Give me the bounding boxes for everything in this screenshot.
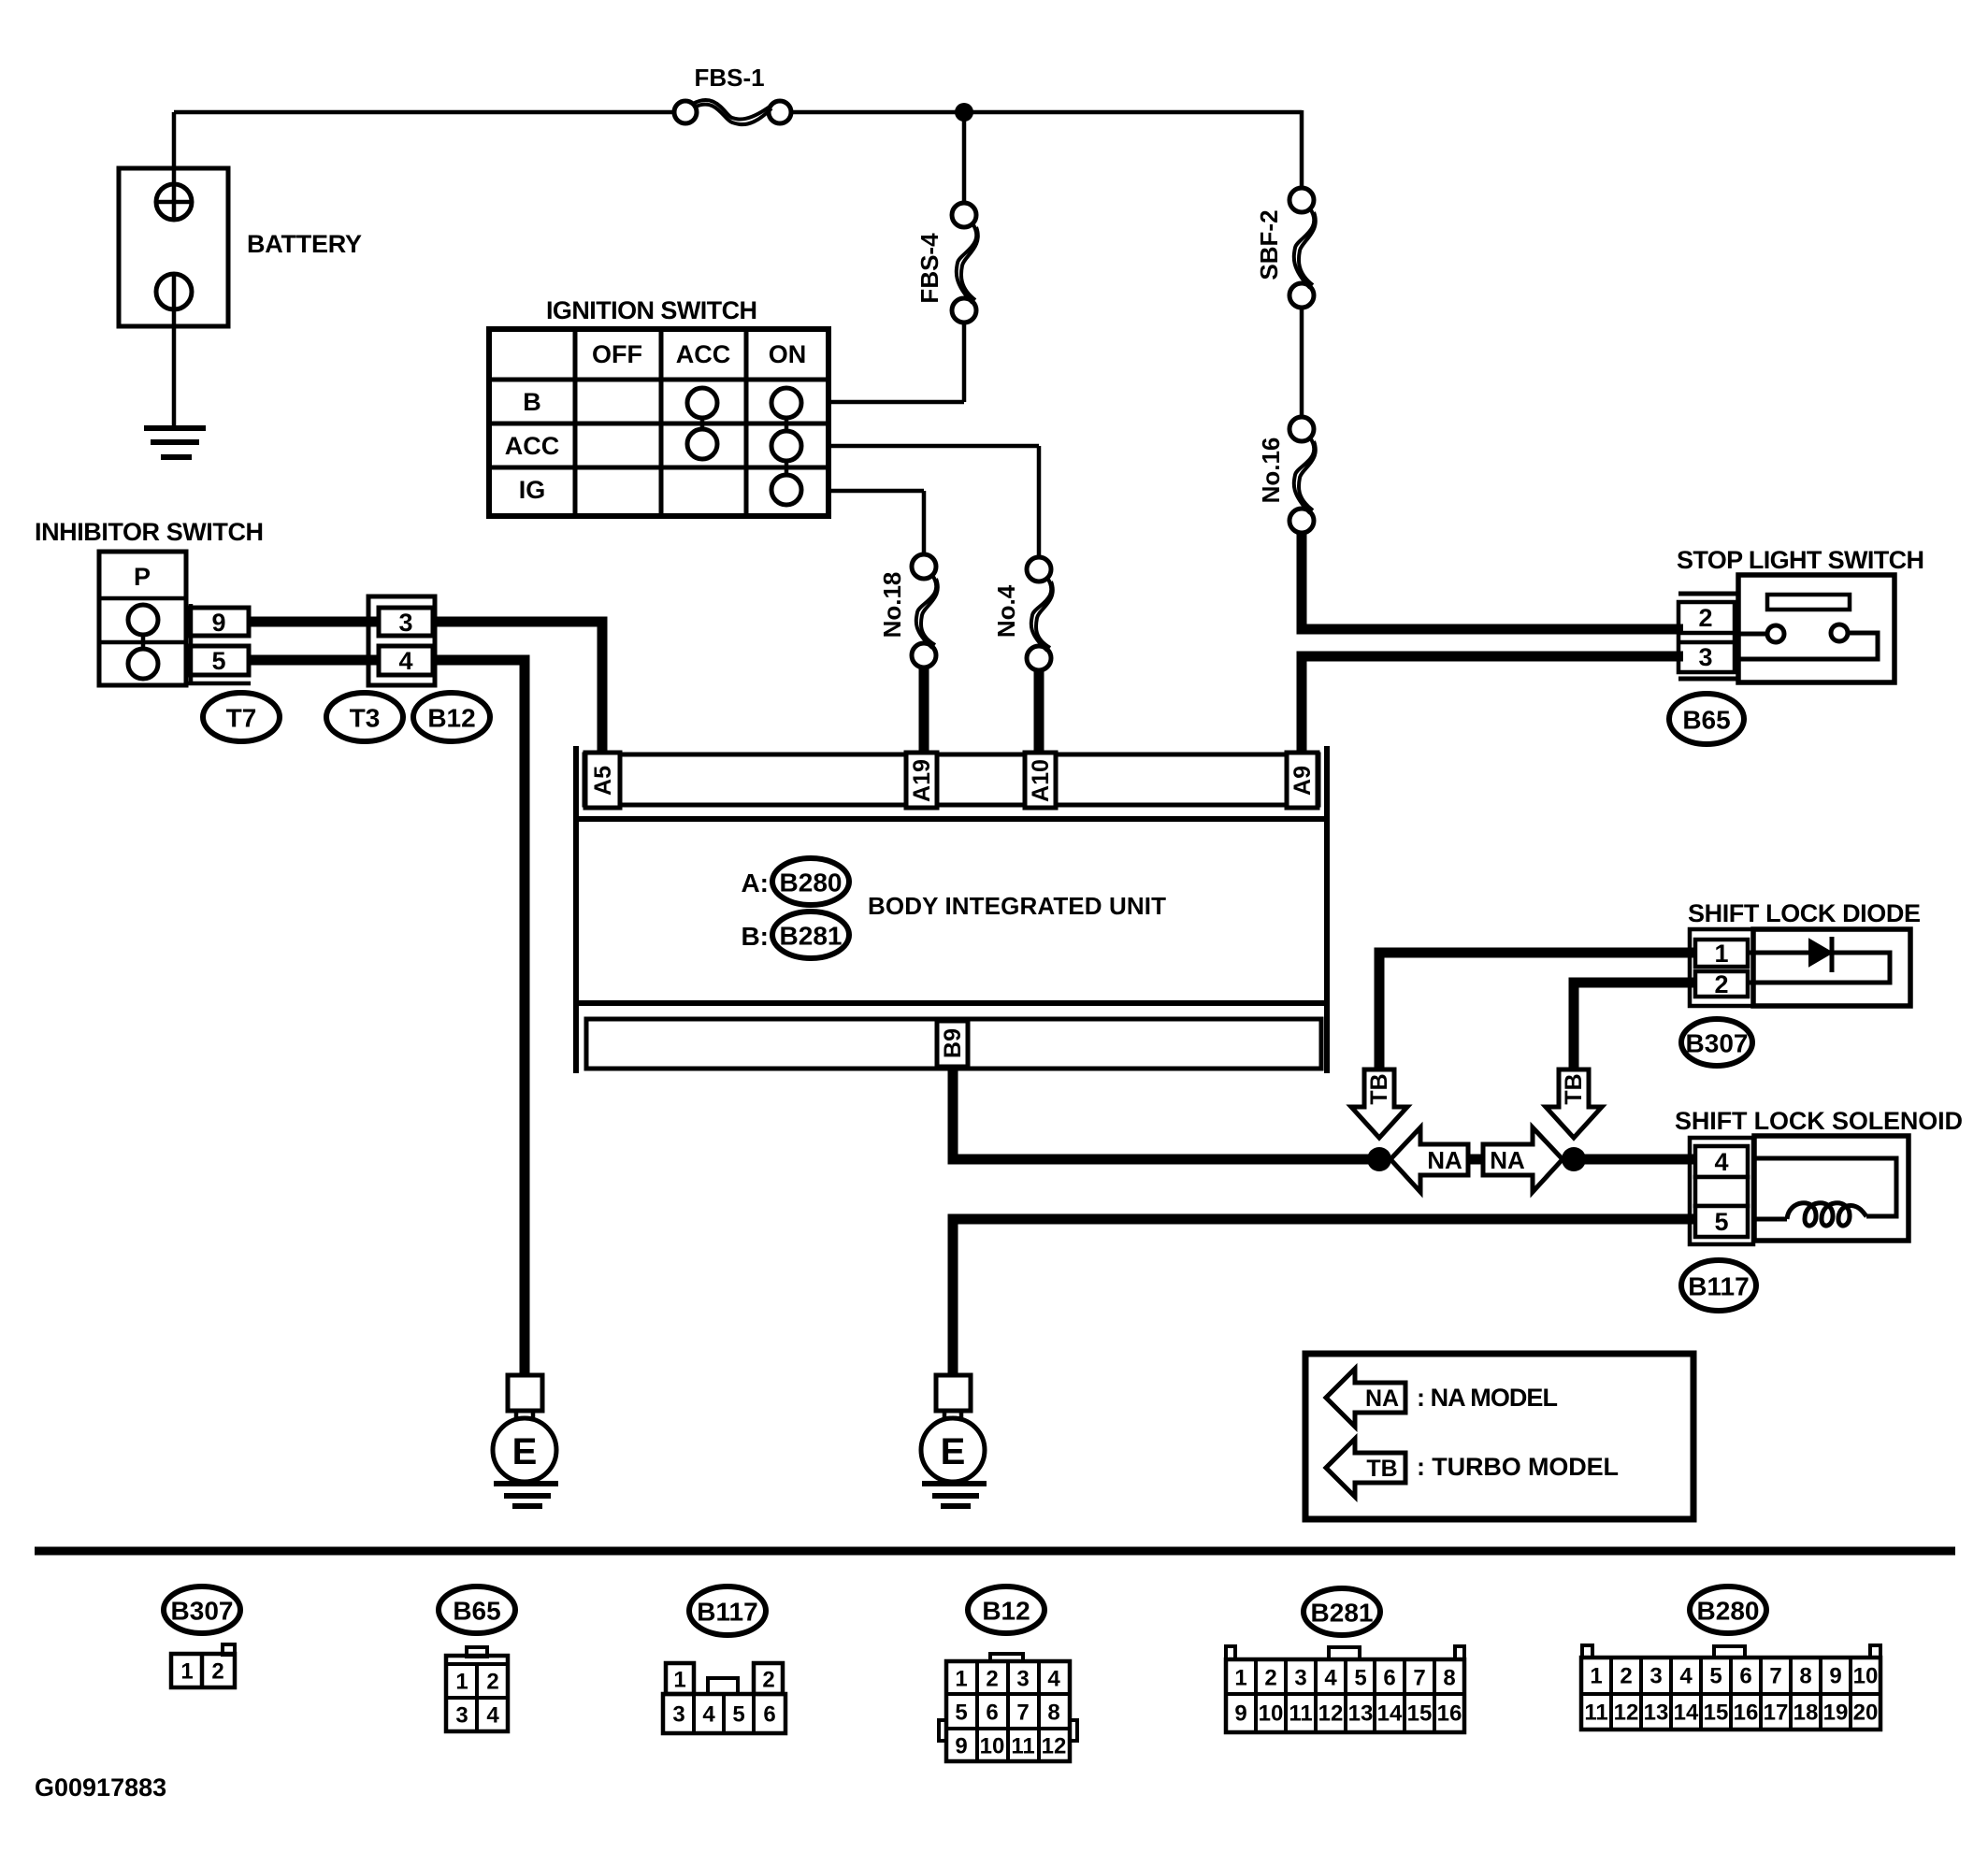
- svg-text:1: 1: [180, 1659, 193, 1685]
- svg-text:TB: TB: [1561, 1073, 1587, 1104]
- connector B281 (ellipse in box): [772, 911, 849, 958]
- svg-text:6: 6: [1383, 1666, 1395, 1691]
- svg-text:6: 6: [986, 1701, 998, 1726]
- pin 3: [379, 608, 433, 636]
- connector B12 (pinout): [968, 1586, 1044, 1633]
- svg-text:A9: A9: [1289, 766, 1316, 796]
- svg-text:B307: B307: [1686, 1029, 1749, 1058]
- connector B280 (ellipse in box): [772, 858, 849, 905]
- battery negative terminal: [156, 274, 192, 309]
- svg-text:2: 2: [986, 1667, 998, 1692]
- svg-text:T7: T7: [226, 704, 257, 733]
- svg-text:3: 3: [398, 609, 412, 637]
- svg-text:9: 9: [1234, 1701, 1246, 1727]
- wire No.16 to stop light switch pin 2: [1302, 533, 1683, 629]
- svg-text:16: 16: [1437, 1701, 1462, 1727]
- svg-text:16: 16: [1734, 1701, 1759, 1726]
- shift lock solenoid connector: [1690, 1138, 1753, 1244]
- svg-text:12: 12: [1318, 1701, 1344, 1727]
- svg-text:4: 4: [1679, 1664, 1693, 1689]
- svg-text:1: 1: [1234, 1666, 1246, 1691]
- wire FBS-1 to corner: [791, 110, 1302, 115]
- svg-text:5: 5: [732, 1702, 744, 1728]
- wire fuse No.18 to A19: [919, 667, 929, 754]
- stop light switch body: [1738, 575, 1894, 682]
- svg-text:FBS-1: FBS-1: [694, 64, 764, 92]
- wire SBF-2 to No.16: [1300, 308, 1304, 417]
- wire between NA arrows: [1464, 1155, 1487, 1165]
- node junction right: [1562, 1147, 1586, 1171]
- legend box: [1305, 1354, 1693, 1519]
- svg-text:INHIBITOR SWITCH: INHIBITOR SWITCH: [35, 518, 264, 546]
- svg-text:13: 13: [1644, 1701, 1669, 1726]
- connector B117 (pinout): [689, 1586, 766, 1635]
- svg-text:: TURBO MODEL: : TURBO MODEL: [1417, 1453, 1619, 1481]
- svg-text:SHIFT LOCK DIODE: SHIFT LOCK DIODE: [1688, 899, 1921, 927]
- svg-text:B9: B9: [940, 1028, 966, 1058]
- svg-text:3: 3: [1016, 1667, 1029, 1692]
- shift lock diode connector: [1690, 929, 1753, 1006]
- svg-text:A10: A10: [1028, 759, 1054, 802]
- inhibitor pin 9: [190, 608, 249, 636]
- svg-text:2: 2: [1714, 970, 1728, 998]
- diode D1: [1748, 951, 1809, 955]
- node junction left: [1367, 1147, 1391, 1171]
- svg-text:NA: NA: [1365, 1385, 1399, 1412]
- svg-text:4: 4: [1047, 1667, 1060, 1692]
- wire stop light switch pin 3 to A9: [1302, 656, 1683, 754]
- shift lock diode body: [1753, 929, 1910, 1006]
- svg-text:B280: B280: [1697, 1597, 1760, 1626]
- svg-text:11: 11: [1289, 1701, 1312, 1727]
- svg-text:TB: TB: [1366, 1456, 1397, 1482]
- svg-text:B: B: [523, 388, 541, 416]
- svg-text:2: 2: [211, 1659, 223, 1685]
- svg-text:10: 10: [1853, 1664, 1879, 1689]
- shift lock solenoid body: [1754, 1136, 1909, 1241]
- fuse No.4: [1027, 557, 1051, 581]
- svg-text:No.16: No.16: [1257, 438, 1285, 504]
- wire B9 down to junction row: [953, 1069, 1374, 1159]
- svg-text:8: 8: [1047, 1701, 1059, 1726]
- body integrated unit left bracket: [573, 746, 579, 1073]
- svg-text:G00917883: G00917883: [35, 1773, 166, 1801]
- svg-text:IG: IG: [519, 476, 546, 504]
- svg-text:3: 3: [672, 1702, 684, 1728]
- svg-text:18: 18: [1794, 1701, 1819, 1726]
- svg-text:5: 5: [955, 1701, 967, 1726]
- svg-text:FBS-4: FBS-4: [915, 233, 944, 304]
- svg-text:1: 1: [1590, 1664, 1602, 1689]
- svg-text:P: P: [134, 563, 151, 591]
- pin A9: [1287, 753, 1318, 808]
- wire ignition IG row to fuse No.18: [828, 489, 924, 494]
- fuse FBS-4: [952, 203, 976, 227]
- svg-text:B12: B12: [982, 1597, 1030, 1626]
- ground E right (solenoid circuit): [936, 1375, 971, 1411]
- body integrated unit main box: [576, 819, 1327, 1003]
- wire junction down to FBS-4: [962, 112, 967, 204]
- TB arrow right: [1546, 1069, 1602, 1138]
- connector B65: [1669, 694, 1744, 744]
- svg-text:8: 8: [1799, 1664, 1811, 1689]
- svg-text:1: 1: [1714, 940, 1728, 968]
- ground E left (inhibitor circuit): [508, 1375, 542, 1411]
- pin B9: [937, 1021, 968, 1067]
- svg-text:12: 12: [1042, 1734, 1067, 1759]
- svg-text:2: 2: [1620, 1664, 1632, 1689]
- svg-text:4: 4: [1714, 1148, 1728, 1176]
- NA arrow right: [1483, 1127, 1563, 1192]
- wire pin 9 to pin 3: [249, 617, 379, 627]
- wire junction to solenoid pin 4: [1574, 1155, 1695, 1165]
- wire pin 5 to pin 4: [249, 655, 379, 666]
- svg-text:5: 5: [1714, 1208, 1728, 1236]
- svg-text:NA: NA: [1427, 1146, 1462, 1174]
- svg-text:No.4: No.4: [992, 584, 1020, 638]
- inhibitor switch: [99, 552, 186, 685]
- svg-text:B280: B280: [780, 868, 843, 897]
- wire battery to FBS-1: [174, 110, 674, 115]
- svg-text:: NA MODEL: : NA MODEL: [1417, 1384, 1558, 1412]
- svg-text:ACC: ACC: [676, 340, 731, 368]
- legend NA arrow: [1326, 1369, 1405, 1427]
- svg-text:6: 6: [1739, 1664, 1751, 1689]
- ignition contact circle ON-col B-row: [771, 388, 801, 418]
- TB arrow left: [1351, 1069, 1407, 1138]
- connector T3: [326, 693, 403, 741]
- svg-text:5: 5: [1709, 1664, 1721, 1689]
- svg-text:15: 15: [1704, 1701, 1729, 1726]
- connector B strip: [586, 1019, 1321, 1069]
- svg-text:19: 19: [1823, 1701, 1849, 1726]
- svg-text:12: 12: [1614, 1701, 1639, 1726]
- ignition contact circle ON-col ACC-row: [771, 431, 801, 461]
- svg-text:IGNITION SWITCH: IGNITION SWITCH: [546, 296, 757, 324]
- connector B280 (pinout): [1690, 1586, 1766, 1633]
- svg-text:1: 1: [673, 1668, 685, 1693]
- svg-text:7: 7: [1769, 1664, 1781, 1689]
- pin A10: [1025, 753, 1056, 808]
- svg-text:1: 1: [955, 1667, 967, 1692]
- svg-text:B117: B117: [1688, 1272, 1749, 1301]
- ignition switch table: [489, 329, 828, 516]
- svg-text:TB: TB: [1366, 1073, 1392, 1104]
- ignition contact circle ACC-col ACC-row: [687, 429, 717, 459]
- fuse FBS-1: [674, 101, 697, 123]
- svg-text:13: 13: [1348, 1701, 1374, 1727]
- svg-text:BODY INTEGRATED UNIT: BODY INTEGRATED UNIT: [868, 892, 1166, 920]
- svg-text:1: 1: [455, 1670, 468, 1695]
- fuse No.18: [912, 554, 936, 579]
- legend TB arrow: [1326, 1439, 1405, 1497]
- svg-text:11: 11: [1584, 1701, 1607, 1726]
- svg-text:5: 5: [1354, 1666, 1366, 1691]
- svg-text:11: 11: [1011, 1734, 1034, 1759]
- svg-text:B12: B12: [427, 704, 475, 733]
- svg-text:2: 2: [1698, 604, 1712, 632]
- svg-text:9: 9: [211, 609, 225, 637]
- wire diode pin 2 to TB arrow: [1574, 983, 1695, 1069]
- connector B117: [1681, 1260, 1756, 1311]
- battery: [119, 168, 228, 326]
- svg-text:7: 7: [1413, 1666, 1425, 1691]
- wire fuse No.4 to A10: [1034, 670, 1044, 754]
- wire diode pin 1 to TB arrow: [1379, 953, 1695, 1069]
- fuse No.16: [1289, 417, 1314, 441]
- svg-text:2: 2: [762, 1668, 774, 1693]
- svg-text:17: 17: [1764, 1701, 1789, 1726]
- svg-text:6: 6: [763, 1702, 775, 1728]
- svg-text:A19: A19: [909, 759, 935, 802]
- pin A19: [906, 753, 937, 808]
- svg-text:2: 2: [486, 1670, 498, 1695]
- svg-text:15: 15: [1407, 1701, 1433, 1727]
- svg-text:10: 10: [980, 1734, 1005, 1759]
- node junction at FBS-4 branch: [955, 103, 973, 122]
- pin 4: [379, 646, 433, 675]
- wire FBS-4 to ignition B row: [962, 323, 967, 402]
- wire top corner down to SBF-2: [1300, 110, 1304, 188]
- svg-text:3: 3: [1649, 1664, 1662, 1689]
- svg-text:B307: B307: [171, 1597, 234, 1626]
- connector B281 (pinout): [1304, 1588, 1380, 1635]
- connector T7: [203, 693, 280, 741]
- NA arrow left: [1390, 1127, 1468, 1192]
- fuse SBF-2: [1289, 188, 1314, 212]
- svg-text:B65: B65: [1682, 706, 1730, 735]
- svg-text:ACC: ACC: [505, 432, 560, 460]
- svg-text:20: 20: [1853, 1701, 1879, 1726]
- svg-text:B281: B281: [780, 922, 843, 951]
- svg-text:14: 14: [1674, 1701, 1699, 1726]
- connector A strip: [584, 754, 1318, 805]
- svg-text:E: E: [941, 1431, 966, 1472]
- ignition contact circle ON-col IG-row: [771, 475, 801, 505]
- svg-text:ON: ON: [769, 340, 807, 368]
- svg-text:B65: B65: [453, 1597, 500, 1626]
- svg-text:3: 3: [455, 1703, 468, 1729]
- svg-text:BATTERY: BATTERY: [247, 230, 362, 258]
- svg-text:OFF: OFF: [592, 340, 642, 368]
- battery positive terminal: [172, 112, 177, 220]
- svg-text:3: 3: [1294, 1666, 1306, 1691]
- wire pin 4 to ground E: [433, 660, 525, 1375]
- svg-text:10: 10: [1259, 1701, 1284, 1727]
- svg-text:E: E: [512, 1431, 538, 1472]
- svg-text:A5: A5: [590, 766, 616, 796]
- ignition contact circle ACC-col B-row: [687, 388, 717, 418]
- pin A5: [585, 753, 620, 808]
- body integrated unit right bracket: [1324, 746, 1330, 1073]
- svg-text:4: 4: [398, 647, 412, 675]
- svg-text:5: 5: [211, 647, 225, 675]
- svg-text:9: 9: [955, 1734, 967, 1759]
- svg-text:B117: B117: [697, 1598, 757, 1627]
- connector B12: [413, 693, 490, 741]
- svg-text:A:: A:: [741, 868, 769, 897]
- svg-text:3: 3: [1698, 643, 1712, 671]
- wire solenoid pin 5 to ground E: [953, 1219, 1695, 1376]
- svg-text:T3: T3: [350, 704, 381, 733]
- ground (battery): [144, 428, 206, 457]
- connector B65 (pinout): [439, 1586, 515, 1633]
- stop light switch connector pins: [1678, 602, 1735, 672]
- svg-text:14: 14: [1377, 1701, 1403, 1727]
- inhibitor connector shell: [186, 682, 251, 686]
- svg-text:7: 7: [1016, 1701, 1029, 1726]
- svg-text:NA: NA: [1490, 1146, 1525, 1174]
- svg-text:4: 4: [486, 1703, 499, 1729]
- stop light switch connector flanges: [1678, 592, 1738, 596]
- svg-text:8: 8: [1443, 1666, 1455, 1691]
- svg-text:2: 2: [1264, 1666, 1276, 1691]
- svg-text:SBF-2: SBF-2: [1255, 209, 1283, 280]
- connector B307: [1681, 1019, 1752, 1066]
- svg-text:SHIFT LOCK SOLENOID: SHIFT LOCK SOLENOID: [1675, 1107, 1963, 1135]
- wire pin 3 to A5: [433, 622, 602, 754]
- connector T3/B12 outline: [368, 596, 435, 685]
- svg-text:B:: B:: [741, 922, 769, 951]
- solenoid coil L1: [1787, 1203, 1866, 1226]
- connector B307 (pinout): [164, 1586, 240, 1633]
- svg-text:B281: B281: [1311, 1599, 1374, 1628]
- wire ignition ACC row to fuse No.4: [828, 444, 1039, 449]
- inhibitor pin 5: [190, 646, 249, 675]
- svg-text:STOP LIGHT SWITCH: STOP LIGHT SWITCH: [1677, 546, 1924, 574]
- svg-text:9: 9: [1829, 1664, 1841, 1689]
- svg-text:No.18: No.18: [878, 572, 906, 639]
- svg-text:4: 4: [1324, 1666, 1337, 1691]
- separator line: [35, 1547, 1955, 1556]
- svg-text:4: 4: [702, 1702, 715, 1728]
